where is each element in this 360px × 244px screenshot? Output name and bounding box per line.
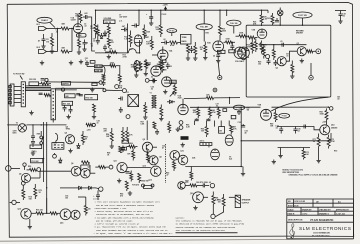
svg-text:PULL BRT: PULL BRT <box>200 27 208 29</box>
svg-text:▭ AS EQUAL, 600V SERIES 'C': ▭ AS EQUAL, 600V SERIES 'C' ARE SUITABLE… <box>94 232 173 235</box>
resistor R32 <box>291 61 294 75</box>
transistor Q12 <box>151 166 161 176</box>
wire lamp leads <box>280 8 281 26</box>
label cluster t <box>56 30 59 34</box>
corner comps <box>86 123 95 126</box>
ground below C1 <box>41 44 45 48</box>
capacitor C37 <box>93 191 100 201</box>
resistor R6 cathode <box>78 33 81 50</box>
tube V3A <box>234 47 249 59</box>
svg-text:DRIVER: DRIVER <box>296 33 303 35</box>
svg-text:DRAWING #: DRAWING # <box>319 212 329 215</box>
resistor R13b beside <box>139 62 142 71</box>
resistor R50 margin <box>320 108 329 124</box>
diode D5 <box>59 158 62 163</box>
label Q16 <box>60 223 63 225</box>
svg-text:BASS: BASS <box>182 40 188 43</box>
label cluster a <box>54 143 58 147</box>
diode D2 <box>100 33 103 38</box>
svg-text:PULL VIB: PULL VIB <box>230 23 238 25</box>
ribbon wires <box>25 86 51 91</box>
ribbon wires right <box>55 88 104 90</box>
wire oval4 stem <box>203 30 205 42</box>
resistor R15 <box>156 10 163 38</box>
capacitor C24 <box>149 77 157 83</box>
svg-text:2W: 2W <box>219 131 222 133</box>
svg-text:1M: 1M <box>46 41 49 43</box>
svg-text:Q12: Q12 <box>143 166 146 168</box>
svg-text:SW1: SW1 <box>37 133 41 135</box>
svg-text:ECN 1-23-85: ECN 1-23-85 <box>295 201 306 203</box>
input jack J1 <box>39 27 59 31</box>
capacitor C4 <box>103 45 107 52</box>
label cluster af <box>337 96 340 101</box>
resistor R81 <box>212 192 220 207</box>
wire speaker rail <box>78 197 86 202</box>
terminal below V3A <box>218 62 222 80</box>
caution text block <box>176 216 246 233</box>
value box V2A <box>162 60 166 63</box>
svg-text:150: 150 <box>218 201 221 203</box>
label cluster j <box>192 157 195 160</box>
label TO FOOT SW <box>13 74 25 80</box>
ground R18 <box>193 56 197 60</box>
svg-text:C33: C33 <box>238 122 241 124</box>
resistor R13 plate <box>143 25 151 40</box>
svg-text:Q5: Q5 <box>19 174 21 176</box>
labels bottom center <box>196 181 211 184</box>
capacitor C27 <box>195 118 199 120</box>
transistor Q10 <box>170 151 180 161</box>
wire grid riser <box>71 28 72 52</box>
ground Q3 <box>300 59 304 63</box>
svg-text:5U4: 5U4 <box>192 157 195 160</box>
tube V2A <box>158 50 168 60</box>
label cluster k <box>247 107 250 112</box>
label cluster ac <box>65 196 68 200</box>
svg-text:470K: 470K <box>330 140 335 143</box>
wire to next stage <box>90 17 95 51</box>
resistor R54 <box>106 128 113 144</box>
label +15V <box>322 121 327 123</box>
oval PULL TREM <box>233 105 244 110</box>
page edge shadow bottom-left <box>0 239 353 241</box>
ground return <box>241 167 245 176</box>
capacitor C28 <box>206 118 210 120</box>
svg-text:.05: .05 <box>169 66 172 68</box>
capacitor C34 <box>275 125 283 134</box>
title block grid <box>287 199 354 239</box>
wire osc to q14 <box>308 127 320 130</box>
svg-text:25: 25 <box>86 43 88 45</box>
resistor R25 vert <box>260 41 267 54</box>
labels R38 <box>119 86 123 90</box>
diode D7 <box>81 186 96 189</box>
resistor R36v <box>102 74 105 82</box>
wire osc bottom <box>278 147 310 149</box>
notes text block <box>93 198 173 235</box>
capacitor C3 bypass <box>82 40 88 52</box>
ground below R6 <box>77 50 81 54</box>
svg-text:.01: .01 <box>286 56 289 58</box>
terminal mid <box>145 79 149 83</box>
terminal bus lower end <box>328 107 333 111</box>
value box R5 <box>77 34 87 38</box>
transformer T1 <box>150 92 157 108</box>
svg-text:SLM ELECTRONICS: SLM ELECTRONICS <box>299 226 351 232</box>
resistor R24 vert <box>247 39 254 54</box>
transistor Q5 <box>21 173 30 182</box>
ground J3 <box>29 111 33 115</box>
svg-text:Q9: Q9 <box>159 157 161 159</box>
capacitor C31b <box>126 172 130 173</box>
transistor Q8 driver <box>143 142 153 152</box>
label cluster n <box>258 62 261 66</box>
svg-text:R76 220: R76 220 <box>36 210 43 212</box>
wire oval stem <box>171 33 173 36</box>
resistor R34 <box>39 82 51 85</box>
wire v1b riser <box>139 40 140 54</box>
ground R32 <box>290 74 294 78</box>
pot LOW box <box>95 69 103 72</box>
svg-text:.02: .02 <box>297 130 300 132</box>
svg-text:+320V: +320V <box>163 5 169 7</box>
svg-text:DRAWN BY: DRAWN BY <box>302 208 313 211</box>
terminal above bus <box>213 88 217 92</box>
svg-text:R33 150: R33 150 <box>29 79 36 81</box>
arc tube half <box>118 49 140 53</box>
wire speaker link <box>203 197 235 216</box>
lamp PL1 <box>277 10 283 16</box>
ground ribbon cluster <box>66 115 70 119</box>
label cluster z <box>107 153 110 157</box>
diode D3 <box>167 100 175 103</box>
svg-text:1 OF 2: 1 OF 2 <box>302 213 308 215</box>
wire osc row <box>277 126 308 128</box>
transistor Q19 <box>193 192 204 203</box>
resistor R51 <box>82 131 89 145</box>
capacitor C12 25uF <box>213 54 220 59</box>
cathode box V2B <box>218 50 226 54</box>
value box tone2 <box>92 83 97 86</box>
terminal row A-B-C <box>200 139 212 145</box>
svg-text:60Hz: 60Hz <box>13 133 17 135</box>
resistor R42 <box>160 105 163 117</box>
oval PT 610 <box>167 29 177 33</box>
wire oval5 stem <box>233 26 235 34</box>
label cluster h <box>245 131 248 135</box>
svg-text:IN 1: IN 1 <box>37 24 40 26</box>
wire reverb row <box>259 44 307 46</box>
ground R17 <box>186 56 190 60</box>
capacitor C36 <box>304 125 305 129</box>
terminal below Q3 <box>309 63 313 80</box>
speaker SP1 <box>235 195 240 207</box>
svg-text:.02: .02 <box>151 77 154 79</box>
wire tone feed <box>87 66 95 68</box>
resistor R2 68K <box>58 24 75 30</box>
label cluster y <box>143 166 146 168</box>
svg-text:1#### NORMAN DR.: 1#### NORMAN DR. <box>313 232 331 235</box>
label cluster l <box>216 104 219 108</box>
svg-text:.05: .05 <box>342 16 345 18</box>
svg-text:VOLUME: VOLUME <box>104 18 112 20</box>
svg-text:Q12: Q12 <box>149 180 152 182</box>
resistor R75 <box>34 184 42 199</box>
svg-text:R20: R20 <box>206 33 209 35</box>
label box tone <box>90 61 95 64</box>
capacitor C11 <box>190 46 194 53</box>
tube Q11 output <box>117 163 127 173</box>
svg-text:25: 25 <box>213 56 215 58</box>
ground R61 <box>176 127 180 131</box>
resistor R58b <box>119 146 127 152</box>
ground C18 <box>338 19 342 23</box>
svg-text:RY1 24V: RY1 24V <box>31 160 39 163</box>
svg-text:7025: 7025 <box>178 98 182 100</box>
wire swoop arc <box>102 66 105 78</box>
resistor R17 <box>187 45 190 57</box>
capacitor C29 <box>31 125 35 140</box>
svg-text:470K: 470K <box>211 111 216 114</box>
capacitor C38 <box>197 183 209 187</box>
terminal ring 4 <box>126 115 130 119</box>
resistor R80 <box>185 184 197 187</box>
wire v2 grid <box>152 47 163 56</box>
terminal left cluster <box>41 78 49 81</box>
terminal t10 <box>96 187 103 191</box>
resistor R76 <box>31 210 43 215</box>
wire q16 q17 join <box>70 213 72 216</box>
terminal ring 3 <box>61 88 64 91</box>
wire center risers <box>127 121 156 168</box>
svg-text:100K: 100K <box>146 32 151 34</box>
resistor R40 <box>157 60 164 73</box>
svg-text:47: 47 <box>38 40 40 43</box>
capacitor pair mix <box>76 93 83 95</box>
resistor R22 <box>236 33 250 38</box>
svg-text:PT 610: PT 610 <box>282 116 287 118</box>
svg-text:2N5089: 2N5089 <box>331 128 337 130</box>
resistor R55 <box>122 127 125 142</box>
label J1 <box>37 24 40 26</box>
loop crossover <box>55 133 58 141</box>
oval PULL BRT 2 <box>227 20 241 26</box>
wire q6 q7 link <box>81 165 96 173</box>
capacitor C8 <box>132 24 140 28</box>
wire diode row left <box>60 187 74 189</box>
label Q19 <box>190 193 193 195</box>
switch SW1 <box>37 131 44 144</box>
label Q12 <box>149 180 152 182</box>
svg-text:Q14: Q14 <box>331 124 334 127</box>
transistor Q15 <box>21 209 31 219</box>
connector J3 <box>9 84 14 106</box>
wire bus drop left <box>95 10 96 25</box>
capacitor C35 <box>293 127 300 134</box>
wire J1/J2 junction <box>57 29 59 52</box>
diode D1 <box>103 31 106 36</box>
oval CHANNEL 1 label <box>37 17 52 23</box>
resistor R16b below V2A <box>159 60 162 70</box>
ground V2B lower <box>144 72 156 83</box>
resistor R56 <box>126 127 134 142</box>
label cluster c <box>97 121 100 125</box>
resistor R21 coupling <box>224 39 236 44</box>
label Q2 <box>276 68 278 70</box>
supply arrow +V <box>163 5 169 11</box>
left box EQ network <box>181 35 192 45</box>
resistor R67 <box>230 125 238 134</box>
svg-text:TREB: TREB <box>182 37 188 39</box>
label V1A <box>71 17 77 22</box>
long bus mid lower <box>190 106 329 107</box>
terminal ring 1b <box>103 89 106 92</box>
capacitor C31 <box>121 146 125 153</box>
svg-text:V7: V7 <box>208 147 210 149</box>
svg-text:Q8: Q8 <box>143 139 145 141</box>
terminal rings left <box>179 121 183 130</box>
ground R54 <box>110 144 114 148</box>
label Q14 <box>331 124 337 130</box>
node junction a <box>108 36 109 37</box>
ground C9 <box>149 21 153 25</box>
label Q8 <box>143 139 145 141</box>
ground R79 <box>128 191 132 195</box>
svg-text:Q16: Q16 <box>60 223 63 225</box>
value box mid <box>223 109 227 112</box>
transistor Q3 <box>297 47 306 56</box>
label V2A <box>169 50 173 53</box>
label cluster u <box>84 24 87 28</box>
oval bottom right <box>279 114 290 119</box>
wire pot riser <box>108 24 110 26</box>
oval FOOT SW <box>293 12 312 18</box>
svg-text:C22: C22 <box>144 61 147 63</box>
terminal strip dark <box>181 136 189 140</box>
svg-text:L.S.: L.S. <box>119 21 123 23</box>
capacitor C26 <box>119 107 123 113</box>
ground osc mid <box>272 160 276 164</box>
svg-text:12AX7: 12AX7 <box>170 81 176 84</box>
capacitor C21 <box>85 58 89 67</box>
resistor R73 <box>302 148 309 160</box>
wire plate V1A <box>77 14 79 24</box>
resistor R59 <box>147 152 150 163</box>
B+ bus top <box>95 9 268 11</box>
resistor R14 <box>146 36 153 50</box>
bus return horizontal <box>185 166 242 167</box>
transistor Q1 reverb drive <box>257 29 267 39</box>
long bus mid upper <box>184 98 240 99</box>
svg-text:100: 100 <box>65 198 68 200</box>
ground R41b <box>159 117 163 121</box>
svg-text:.02: .02 <box>93 41 96 43</box>
svg-text:GND SW: GND SW <box>141 181 149 183</box>
svg-text:R27: R27 <box>267 18 270 20</box>
terminal t5b <box>23 163 26 170</box>
svg-text:.022: .022 <box>84 13 88 15</box>
svg-text:Q15: Q15 <box>18 209 21 211</box>
pot box aux <box>62 82 71 86</box>
svg-text:Q10: Q10 <box>180 151 183 153</box>
svg-text:.02: .02 <box>84 26 87 28</box>
svg-text:100K: 100K <box>75 16 80 18</box>
value box supply <box>219 127 225 134</box>
logo treble clef <box>290 224 295 239</box>
input jack J2 <box>39 50 58 54</box>
ground tone cluster <box>107 55 111 59</box>
transistor Q18 <box>178 182 186 190</box>
resistor R12 <box>124 31 132 48</box>
resistor R61 <box>168 121 171 133</box>
resistor R23 <box>248 36 258 39</box>
resistor R48 <box>237 110 241 115</box>
svg-text:.02: .02 <box>216 106 219 108</box>
oval 4TH STAGE <box>196 24 212 30</box>
revision note block <box>283 169 339 176</box>
wire tone link <box>95 52 118 54</box>
wire R34 long <box>46 81 99 83</box>
svg-text:Q3: Q3 <box>297 43 299 45</box>
pot arrow T1 <box>170 93 174 97</box>
value box bias <box>122 140 128 143</box>
label C22 under bus <box>162 14 167 16</box>
svg-text:.1: .1 <box>85 60 87 62</box>
svg-text:SPEAKER: SPEAKER <box>242 199 251 202</box>
resistor R82 <box>218 194 226 208</box>
wire mid riser <box>229 97 230 104</box>
transistor Q4 <box>65 135 74 144</box>
resistor R43 <box>143 102 147 119</box>
resistor R7 <box>90 24 97 39</box>
label Q11 <box>114 161 117 163</box>
svg-text:G-147-154: G-147-154 <box>336 212 345 215</box>
pot MID box <box>95 65 103 68</box>
resistor R45 <box>193 107 200 119</box>
resistor R74 <box>22 185 25 200</box>
resistor R39 <box>131 60 138 73</box>
svg-text:VT-120 SCHEMATIC: VT-120 SCHEMATIC <box>310 219 334 222</box>
svg-text:270K: 270K <box>123 57 128 59</box>
transistor Q2 <box>277 57 286 66</box>
transistor Q6 <box>71 166 81 176</box>
label V3A <box>235 60 244 63</box>
svg-text:C9 22: C9 22 <box>162 14 167 16</box>
wire q15 row <box>9 201 11 203</box>
bridge BR1 <box>52 143 64 150</box>
ground R19 <box>203 56 207 60</box>
svg-text:CHANGED, FULL SUPPLY, V1-R-10: CHANGED, FULL SUPPLY, V1-R-10 AS A VALUE… <box>289 174 339 177</box>
label cluster aa <box>66 126 71 131</box>
label cluster topmid <box>119 15 128 23</box>
ground Q4 <box>68 149 72 153</box>
label cluster ae <box>334 151 337 153</box>
svg-text:.047 600V: .047 600V <box>119 16 128 19</box>
tube V5A <box>178 99 188 115</box>
wire corner stub <box>335 10 346 12</box>
terminal loop <box>266 55 270 59</box>
connector J5 strip <box>51 89 55 120</box>
ground V2B cathode <box>216 59 220 63</box>
transistor Q14 <box>320 125 330 135</box>
resistor R35 <box>39 93 51 96</box>
capacitor C21b <box>102 83 106 86</box>
pot P1 volume box <box>104 18 116 24</box>
svg-text:470: 470 <box>185 181 188 184</box>
wire vert x127.5 <box>127 24 129 53</box>
resistor R31 out <box>307 50 316 53</box>
